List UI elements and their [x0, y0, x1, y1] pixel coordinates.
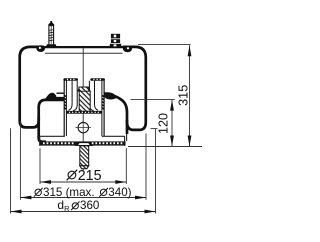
extension line piston top right (120 dim): [131, 99, 175, 101]
extension line dR left: [10, 128, 12, 213]
extension line diameter 315 left: [19, 121, 21, 200]
dimension line dR 360: [11, 210, 156, 214]
extension line diameter 215 left: [39, 148, 41, 184]
extension line dR right with lead tick: [151, 128, 158, 130]
svg-text:360: 360: [80, 199, 99, 212]
extension line diameter 215 right: [125, 148, 127, 184]
svg-text:340): 340): [108, 186, 131, 199]
svg-text:315: 315: [176, 85, 190, 106]
piston skirt step line right: [102, 135, 125, 137]
bellows lobe inner leg to bottom plate right: [126, 120, 129, 134]
centerline axis: [82, 46, 84, 170]
dimension line 315 vertical: [188, 45, 192, 146]
piston cup rim top right (crimped): [90, 78, 105, 81]
dimension line diameter 315: [20, 196, 146, 200]
dimension line 120 vertical: [170, 100, 174, 147]
piston bottom plate (knurled strip): [40, 141, 126, 145]
bellows outer contour left (shoulder, wall, rolling lobe): [20, 47, 64, 128]
bellows lobe inner leg to bottom plate left: [39, 117, 46, 142]
piston cup rim top left (crimped): [63, 78, 78, 81]
bead funnel right (inner cup lines): [95, 81, 99, 111]
extension line piston bottom right (315/120 dims): [128, 146, 202, 148]
bead funnel left (inner cup lines): [68, 81, 72, 111]
svg-text:215: 215: [78, 168, 102, 184]
piston cup outer wall left: [63, 80, 65, 137]
bellows lower bead left (solid rubber wedge): [44, 93, 64, 101]
plate crimp bead left: [36, 45, 45, 52]
piston wall crimp ticks: [64, 96, 104, 110]
label diameter 315 max 340: [34, 188, 108, 197]
piston bottom plate rim hook left: [39, 136, 41, 146]
piston center column (hatched cross-section): [77, 87, 90, 111]
dimension line diameter 215: [40, 180, 126, 184]
extension line diameter 315 right: [145, 134, 147, 200]
bellows outer contour right (shoulder, wall, rolling lobe): [112, 47, 146, 130]
air fitting on top plate right: [110, 34, 121, 47]
air stud (bolt) on top plate left: [46, 21, 56, 47]
piston cup bottom crimp strip: [66, 111, 102, 114]
svg-text:120: 120: [156, 113, 170, 134]
blind hole circle with crosshair on piston: [76, 121, 92, 135]
piston bottom plate rim hook right: [124, 136, 126, 146]
svg-text:315 (max.: 315 (max.: [43, 186, 95, 199]
top plate: [44, 47, 124, 53]
piston cup outer wall right: [103, 80, 105, 137]
bottom threaded stud (hatched): [80, 146, 89, 169]
plate crimp bead right: [123, 46, 132, 53]
extension line top (315 dim, plate top level): [138, 43, 191, 45]
stud collar on piston bottom: [75, 143, 92, 146]
bellows lower bead right (solid rubber wedge): [104, 92, 117, 99]
piston skirt step line left: [39, 135, 64, 137]
label diameter 215: [67, 170, 78, 181]
